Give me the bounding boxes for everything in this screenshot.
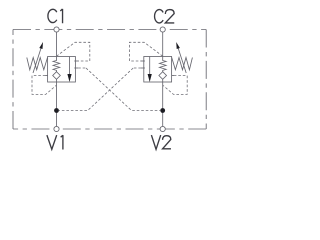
label V2 (drawn glyphs) [151,135,171,149]
wire: C1 line down to valve CB1 [56,32,58,57]
assembly boundary top edge (dash-dot) [13,29,206,31]
pilot line (dashed) CB1 X-pilot to node on V2 line [86,68,160,111]
counterbalance valve CB1 (left) [27,42,90,94]
assembly boundary bottom edge (dash-dot) [13,128,206,130]
junction node on V1 line [54,108,59,113]
port C1 [54,27,59,32]
port V1 [54,126,59,131]
white background [0,0,220,161]
label V1 (drawn glyphs) [47,135,63,149]
label C2 (drawn glyphs) [155,10,175,23]
label C1 (drawn glyphs) [48,9,63,23]
wire: valve CB1 down to V1 [56,82,58,127]
wire: C2 line down to valve CB2 [162,32,164,57]
junction node on V2 line [160,108,165,113]
assembly boundary right edge (dash-dot) [205,30,207,130]
port C2 [160,27,165,32]
assembly boundary left edge (dash-dot) [12,30,14,130]
wire: valve CB2 down to V2 [162,82,164,127]
counterbalance valve CB2 (right, mirrored) [129,42,192,94]
pilot line (dashed) CB2 X-pilot to node on V1 line [59,68,133,111]
port V2 [160,126,165,131]
